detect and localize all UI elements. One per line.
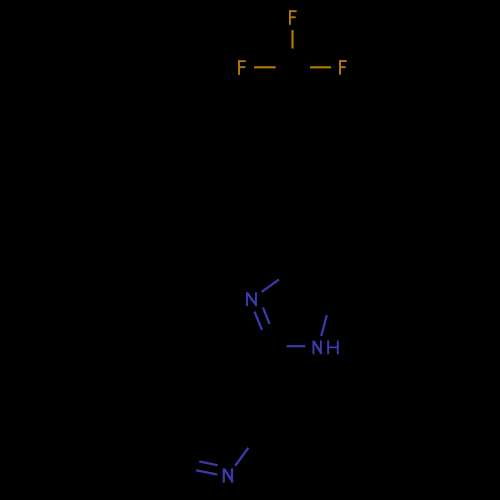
atom label F left (fluorine of CF3)	[238, 60, 246, 75]
bond C-F right (horizontal)	[310, 66, 331, 68]
bond N3-C4 imidazole	[262, 280, 280, 293]
double bond N3=C2 imidazole line 1	[255, 312, 263, 331]
atom label NH imidazole N1	[313, 340, 339, 354]
atom label F top (fluorine of CF3)	[289, 10, 297, 25]
double bond N1=C6 pyridine line 2	[196, 470, 217, 474]
bond C-F top (vertical)	[291, 30, 293, 49]
double bond N3=C2 imidazole line 2	[263, 308, 270, 325]
atom label N imidazole N3	[246, 292, 257, 306]
bond C-F left (horizontal)	[254, 66, 276, 68]
atom label F right (fluorine of CF3)	[339, 60, 347, 75]
bond N1-C2 imidazole	[287, 345, 306, 347]
atom label N pyridine	[223, 468, 233, 482]
bond N1-C5 imidazole	[321, 315, 327, 336]
bond N1-C2 pyridine	[235, 448, 248, 466]
double bond N1=C6 pyridine line 1	[199, 461, 217, 465]
